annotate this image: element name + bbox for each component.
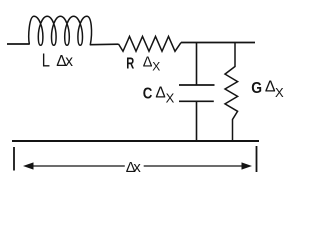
wire top right (181, 42, 255, 44)
conductance G zigzag branch (225, 43, 238, 142)
svg-text:x: x (65, 53, 73, 70)
wire left input (7, 43, 29, 45)
svg-text:x: x (133, 160, 141, 176)
svg-text:X: X (166, 91, 175, 106)
capacitor C bottom lead (196, 101, 198, 141)
svg-text:R: R (126, 55, 134, 72)
wire coil to resistor (90, 43, 118, 46)
svg-text:G: G (251, 80, 262, 97)
svg-text:Δ: Δ (143, 54, 153, 70)
resistor R zigzag (119, 36, 182, 51)
svg-text:Δ: Δ (155, 85, 165, 102)
inductor L coil (29, 16, 92, 45)
dimension tick left (13, 147, 15, 171)
dimension arrow right head (242, 162, 253, 169)
capacitor C bottom plate (179, 100, 214, 102)
capacitor C top plate (179, 84, 215, 86)
capacitor C top lead (196, 43, 198, 86)
svg-text:L: L (42, 51, 50, 71)
dimension arrow right shaft (144, 165, 245, 167)
svg-text:X: X (152, 59, 160, 73)
dimension tick right (256, 146, 258, 172)
dimension arrow left head (23, 162, 34, 169)
svg-text:X: X (275, 85, 284, 100)
dimension arrow left shaft (30, 165, 125, 167)
bottom rail (12, 140, 259, 142)
svg-text:C: C (143, 85, 153, 102)
